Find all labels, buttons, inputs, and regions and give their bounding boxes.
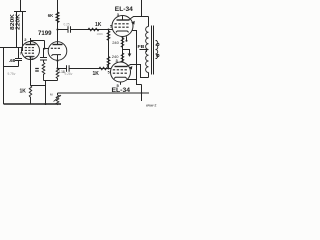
svg-text:5: 5: [110, 25, 112, 29]
svg-text:9.28v: 9.28v: [65, 72, 73, 76]
svg-text:100K: 100K: [97, 32, 104, 36]
svg-text:FB: FB: [138, 44, 145, 50]
svg-text:1K: 1K: [95, 22, 102, 28]
svg-text:www-2: www-2: [146, 104, 156, 108]
svg-text:240: 240: [112, 40, 119, 45]
svg-text:0.25: 0.25: [64, 23, 70, 27]
svg-text:9.75v: 9.75v: [8, 72, 16, 76]
svg-text:6: 6: [32, 57, 34, 61]
svg-text:5: 5: [108, 70, 110, 74]
svg-text:1K: 1K: [20, 89, 27, 95]
svg-text:EL-34: EL-34: [112, 88, 131, 94]
svg-text:6K: 6K: [48, 13, 53, 18]
svg-text:220K: 220K: [16, 13, 22, 30]
svg-text:7199: 7199: [38, 31, 52, 37]
svg-text:1K: 1K: [93, 71, 100, 77]
svg-text:.68: .68: [9, 58, 16, 63]
